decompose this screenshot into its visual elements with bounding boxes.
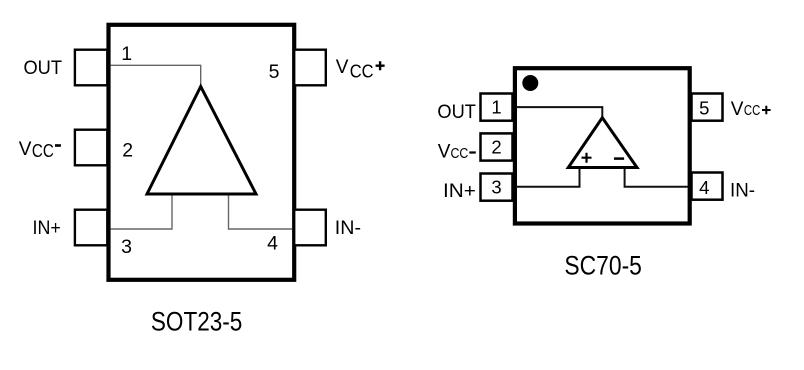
svg-text:V: V xyxy=(19,139,32,160)
op-amp inverting input - mark (SC70-5) xyxy=(614,157,624,160)
IC body U1 SOT23-5 package outline xyxy=(109,25,295,280)
svg-text:3: 3 xyxy=(491,177,501,198)
op-amp triangle symbol (SOT23-5) xyxy=(147,87,256,195)
svg-text:CC: CC xyxy=(451,145,469,162)
svg-text:4: 4 xyxy=(699,177,709,198)
wire pin1 OUT to op-amp apex (SOT23-5) xyxy=(111,65,201,88)
svg-text:V: V xyxy=(731,99,744,120)
svg-text:IN+: IN+ xyxy=(33,218,61,239)
pin 1 numbered box (SC70-5) xyxy=(481,94,513,121)
label VCC+ (SC70-5 pin5) xyxy=(731,99,771,120)
pin 5 lead rectangle VCC+ (SOT23-5) xyxy=(294,50,326,86)
pin 3 lead rectangle IN+ (SOT23-5) xyxy=(75,210,107,246)
svg-text:IN+: IN+ xyxy=(443,181,476,202)
svg-text:2: 2 xyxy=(122,139,133,161)
pin 3 numbered box (SC70-5) xyxy=(481,174,513,201)
op-amp non-inverting input + mark (SC70-5) xyxy=(582,153,592,163)
svg-text:CC: CC xyxy=(350,61,374,82)
svg-text:OUT: OUT xyxy=(24,58,63,79)
svg-text:4: 4 xyxy=(267,233,278,255)
pin 4 lead rectangle IN- (SOT23-5) xyxy=(294,210,326,246)
svg-text:3: 3 xyxy=(121,236,132,258)
svg-text:1: 1 xyxy=(491,97,501,118)
svg-text:1: 1 xyxy=(121,43,132,65)
wire pin1 OUT to op-amp apex (SC70-5) xyxy=(516,107,602,119)
svg-text:V: V xyxy=(336,57,349,78)
svg-text:5: 5 xyxy=(269,61,280,83)
IC body U2 SC70-5 package outline xyxy=(515,68,690,223)
pin 4 numbered box (SC70-5) xyxy=(692,173,723,200)
op-amp triangle symbol (SC70-5) xyxy=(568,118,637,168)
pin 2 lead rectangle VCC- (SOT23-5) xyxy=(75,130,107,166)
svg-text:SOT23-5: SOT23-5 xyxy=(151,307,242,337)
svg-text:IN-: IN- xyxy=(730,180,755,201)
svg-text:OUT: OUT xyxy=(437,102,476,123)
wire pin3 IN+ to op-amp base left (SC70-5) xyxy=(516,167,580,187)
label VCC- (SOT23-5 pin2) xyxy=(19,139,61,161)
pin 5 numbered box (SC70-5) xyxy=(692,94,723,121)
wire pin4 IN- to op-amp base right (SOT23-5) xyxy=(229,193,293,229)
svg-text:V: V xyxy=(438,142,451,163)
pin 1 lead rectangle OUT (SOT23-5) xyxy=(75,50,107,86)
wire pin3 IN+ to op-amp base left (SOT23-5) xyxy=(111,193,172,229)
svg-text:CC: CC xyxy=(32,140,54,161)
svg-text:2: 2 xyxy=(491,136,501,157)
pin 2 numbered box (SC70-5) xyxy=(481,133,513,160)
label VCC+ (SOT23-5 pin5) xyxy=(336,57,385,82)
svg-text:5: 5 xyxy=(699,97,709,118)
svg-text:CC: CC xyxy=(744,102,761,119)
wire pin4 IN- to op-amp base right (SC70-5) xyxy=(625,167,688,187)
svg-text:SC70-5: SC70-5 xyxy=(564,251,642,281)
label VCC- (SC70-5 pin2) xyxy=(438,142,476,163)
svg-text:IN-: IN- xyxy=(335,218,361,239)
pin 1 index dot marker (SC70-5) xyxy=(522,75,538,91)
